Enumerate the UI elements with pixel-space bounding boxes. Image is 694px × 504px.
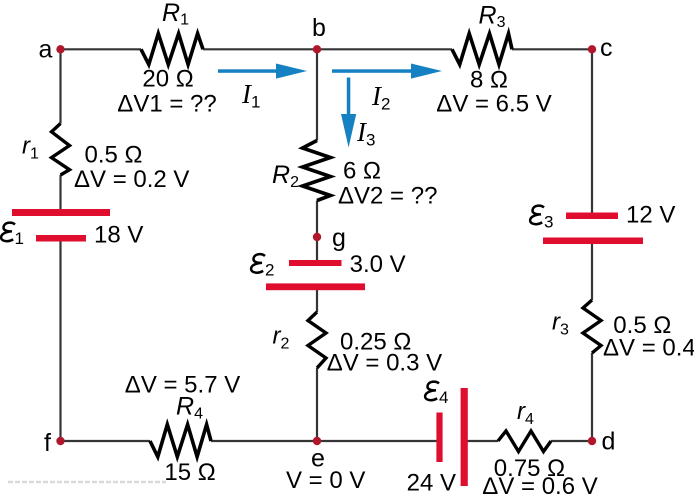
wire top b to R3 — [317, 48, 452, 50]
resistor r2 — [308, 312, 326, 368]
wire bottom battery E4 to r4 — [467, 440, 498, 442]
wire top R1 to b — [203, 48, 317, 50]
wire top R3 to c — [512, 48, 592, 50]
wire bottom r4 to d — [551, 440, 592, 442]
battery E4 emf symbol — [425, 382, 439, 401]
current arrow I2 — [332, 64, 442, 79]
svg-text:6 Ω: 6 Ω — [343, 158, 381, 185]
svg-text:ΔV2 = ??: ΔV2 = ?? — [338, 183, 437, 210]
battery E4 long plate — [461, 388, 468, 486]
wire right battery E3 to r3 — [591, 242, 593, 300]
wire bottom f to R4 — [61, 440, 151, 442]
resistor R4 — [150, 425, 211, 457]
svg-text:ΔV1 = ??: ΔV1 = ?? — [117, 91, 216, 118]
svg-text:8 Ω: 8 Ω — [470, 67, 508, 94]
svg-text:2: 2 — [265, 261, 274, 280]
svg-text:f: f — [44, 429, 51, 457]
wire left a to r1 — [59, 49, 61, 123]
svg-text:I2: I2 — [371, 81, 390, 114]
svg-text:ΔV = 0.6 V: ΔV = 0.6 V — [482, 473, 597, 500]
svg-text:g: g — [332, 224, 346, 252]
wire right r3 to d — [591, 353, 593, 441]
resistor R2 — [303, 141, 331, 201]
svg-text:18 V: 18 V — [94, 222, 143, 249]
svg-text:r4: r4 — [517, 398, 534, 428]
node c dot — [588, 45, 596, 53]
battery E1 emf symbol — [1, 223, 15, 242]
wire bottom R4 through e to battery E4 — [211, 440, 437, 442]
battery E3 emf symbol — [530, 206, 544, 225]
node d dot — [588, 437, 596, 445]
resistor R1 — [141, 34, 203, 65]
svg-text:c: c — [600, 34, 613, 62]
svg-text:r2: r2 — [273, 323, 290, 353]
node a dot — [56, 45, 64, 53]
battery E3 long plate — [543, 238, 643, 245]
resistor r1 — [52, 124, 70, 176]
node g wire junction dot — [313, 233, 321, 241]
wire left r1 to battery E1 — [59, 175, 61, 211]
svg-text:I1: I1 — [241, 79, 260, 112]
resistor r4 — [498, 431, 551, 452]
svg-text:R1: R1 — [162, 0, 189, 29]
svg-text:ΔV = 0.3 V: ΔV = 0.3 V — [327, 350, 442, 377]
battery E3 short plate — [566, 213, 618, 220]
node f dot — [56, 437, 64, 445]
resistor R3 — [452, 34, 512, 65]
svg-text:3.0 V: 3.0 V — [350, 251, 406, 278]
svg-text:r3: r3 — [552, 309, 569, 339]
wire middle battery E2 to r2 — [316, 288, 318, 312]
battery E4 short plate — [436, 413, 442, 463]
wire top a to R1 — [61, 48, 142, 50]
current arrow I3 — [341, 78, 356, 148]
svg-text:0.5 Ω: 0.5 Ω — [85, 142, 143, 169]
wire middle r2 to e — [316, 368, 318, 441]
svg-text:ΔV = 6.5 V: ΔV = 6.5 V — [436, 91, 551, 118]
svg-text:3: 3 — [544, 213, 553, 232]
svg-text:ΔV = 0.45 V: ΔV = 0.45 V — [603, 335, 694, 362]
svg-text:R2: R2 — [272, 161, 299, 191]
svg-text:4: 4 — [439, 388, 448, 407]
svg-text:d: d — [602, 428, 616, 456]
wire right c to battery E3 — [591, 49, 593, 214]
svg-text:15 Ω: 15 Ω — [164, 459, 215, 486]
faint watermark line — [8, 481, 166, 483]
node b dot — [313, 45, 321, 53]
node e dot — [313, 437, 321, 445]
wire left battery E1 to f — [59, 239, 61, 441]
svg-text:24 V: 24 V — [407, 470, 456, 497]
svg-text:20 Ω: 20 Ω — [142, 66, 193, 93]
battery E2 emf symbol — [251, 254, 265, 273]
wire middle b to R2 — [316, 49, 318, 140]
wire middle R2 through g to battery E2 — [316, 201, 318, 263]
battery E2 long plate — [266, 283, 365, 290]
svg-text:1: 1 — [15, 229, 24, 248]
svg-text:V = 0 V: V = 0 V — [286, 467, 365, 494]
svg-text:a: a — [39, 36, 53, 64]
svg-text:r1: r1 — [22, 133, 39, 163]
svg-text:ΔV = 0.2 V: ΔV = 0.2 V — [74, 166, 189, 193]
svg-text:12 V: 12 V — [626, 202, 675, 229]
svg-text:b: b — [312, 14, 326, 42]
battery E1 short plate — [36, 235, 86, 242]
battery E2 short plate — [289, 260, 342, 266]
svg-text:I3: I3 — [356, 117, 375, 150]
battery E1 long plate — [12, 209, 110, 216]
resistor r3 — [583, 300, 601, 353]
svg-text:R3: R3 — [479, 2, 506, 32]
current arrow I1 — [218, 64, 307, 79]
